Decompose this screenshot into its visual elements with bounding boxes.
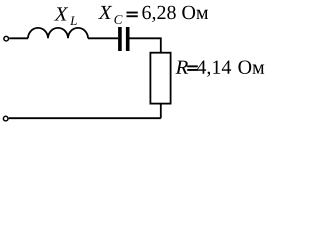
capacitor XC plate left: [118, 27, 122, 51]
label XL: X: [54, 7, 68, 20]
wire: bottom rail: [9, 117, 161, 119]
label R: R: [176, 61, 189, 74]
wire: top terminal to inductor: [9, 37, 28, 39]
label R: unit Ом: [238, 61, 264, 74]
label XC: X: [98, 6, 112, 19]
terminal: bottom input: [3, 116, 8, 121]
wire: capacitor to resistor top: [130, 38, 161, 53]
label R: equals sign: [187, 65, 198, 67]
label XC: value 6,28 Ом: [142, 6, 208, 22]
inductor XL: [28, 28, 88, 38]
wire: inductor to capacitor: [88, 37, 118, 39]
label R: value 4,14: [197, 61, 231, 77]
label XL: L subscript: [70, 17, 77, 26]
label XC: C subscript: [114, 15, 122, 24]
label XC: equals sign: [127, 12, 138, 14]
resistor R: [150, 53, 170, 104]
wire: resistor bottom to bottom rail: [160, 104, 162, 119]
capacitor XC plate right: [126, 27, 130, 51]
terminal: top input: [4, 36, 9, 41]
